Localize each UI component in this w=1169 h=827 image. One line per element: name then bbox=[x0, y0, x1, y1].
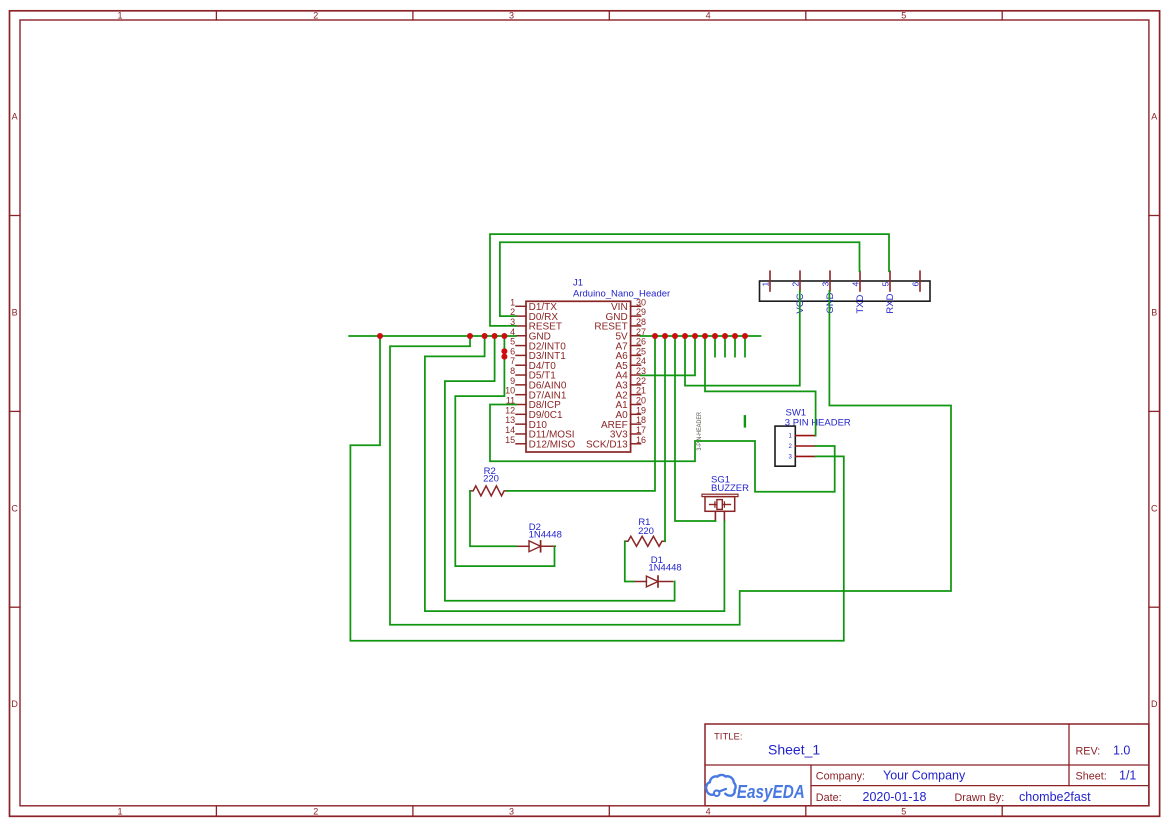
connector J1 Arduino_Nano_Header body bbox=[526, 301, 631, 452]
connector SW1 3 PIN HEADER body bbox=[775, 426, 795, 466]
svg-text:17: 17 bbox=[636, 425, 646, 435]
svg-text:3: 3 bbox=[509, 11, 514, 21]
diode D1 bbox=[634, 576, 673, 587]
svg-text:28: 28 bbox=[636, 317, 646, 327]
label SW1 refdes bbox=[786, 407, 807, 418]
wire stub below 5V c bbox=[734, 336, 736, 357]
svg-text:7: 7 bbox=[510, 356, 515, 366]
svg-text:4: 4 bbox=[706, 807, 711, 817]
label SW1 value 3 PIN HEADER bbox=[785, 417, 851, 428]
svg-text:1: 1 bbox=[510, 297, 515, 307]
wire GND to SW1 pin3 bbox=[350, 336, 843, 641]
svg-text:29: 29 bbox=[636, 307, 646, 317]
SW1 pin 1 bbox=[788, 434, 815, 440]
svg-text:BUZZER: BUZZER bbox=[711, 483, 749, 494]
J1 pin 29 GND bbox=[605, 307, 646, 323]
svg-text:Drawn By:: Drawn By: bbox=[955, 792, 1005, 804]
junction dot 5V bus 4 bbox=[682, 333, 688, 339]
junction dot GND bus 1 bbox=[377, 333, 383, 339]
svg-text:Sheet_1: Sheet_1 bbox=[768, 742, 820, 758]
svg-text:22: 22 bbox=[636, 376, 646, 386]
J1 pin 7 D4/T0 bbox=[510, 356, 556, 372]
wire 5V to header VCC bbox=[685, 291, 800, 386]
junction dot 5V bus 5 bbox=[692, 333, 698, 339]
svg-text:5: 5 bbox=[510, 337, 515, 347]
J1 pin 19 A0 bbox=[615, 405, 646, 421]
svg-text:5: 5 bbox=[901, 11, 906, 21]
label SG1 value BUZZER bbox=[711, 483, 749, 494]
svg-text:D: D bbox=[11, 699, 18, 709]
wire 5V to R1 bbox=[664, 336, 666, 541]
J1 pin 14 D11/MOSI bbox=[505, 425, 574, 441]
J1 pin 4 GND bbox=[510, 327, 551, 343]
J1 pin 17 3V3 bbox=[610, 425, 646, 441]
svg-text:5: 5 bbox=[901, 807, 906, 817]
label R2 refdes bbox=[484, 466, 496, 477]
svg-text:16: 16 bbox=[636, 435, 646, 445]
J1 pin 3 RESET bbox=[510, 317, 562, 333]
resistor R1 bbox=[625, 536, 665, 546]
J1 pin 8 D5/T1 bbox=[510, 366, 556, 382]
diode D2 bbox=[516, 541, 555, 552]
svg-text:Arduino_Nano_Header: Arduino_Nano_Header bbox=[573, 289, 670, 300]
svg-text:D12/MISO: D12/MISO bbox=[529, 439, 576, 450]
J1 pin 10 D7/AIN1 bbox=[505, 386, 567, 402]
svg-text:13: 13 bbox=[505, 415, 515, 425]
label D2 value 1N4448 bbox=[529, 530, 562, 541]
P1 pin 5 bbox=[880, 271, 896, 313]
junction dot pin5-6 column 1 bbox=[501, 348, 507, 354]
svg-text:24: 24 bbox=[636, 356, 646, 366]
wire GND to D1 cathode bbox=[445, 336, 675, 601]
wire stub below 5V d bbox=[744, 336, 746, 357]
buzzer SG1 body bbox=[702, 494, 738, 521]
wire GND to header GND bbox=[390, 291, 951, 625]
J1 pin 15 D12/MISO bbox=[505, 435, 575, 451]
junction dot GND bus 3 bbox=[482, 333, 488, 339]
svg-text:3-PIN-HEADER: 3-PIN-HEADER bbox=[696, 412, 703, 451]
wire GND to buzzer negative bbox=[425, 336, 725, 611]
J1 pin 26 A7 bbox=[615, 337, 646, 353]
junction dot pin5-6 column 2 bbox=[501, 354, 507, 360]
svg-text:1.0: 1.0 bbox=[1113, 744, 1130, 758]
svg-text:21: 21 bbox=[636, 386, 646, 396]
svg-text:6: 6 bbox=[510, 346, 515, 356]
svg-text:1: 1 bbox=[117, 807, 122, 817]
J1 pin 20 A1 bbox=[615, 396, 646, 412]
rotated name 3-PIN-HEADER bbox=[696, 412, 703, 451]
svg-text:10: 10 bbox=[505, 386, 515, 396]
J1 pin 16 SCK/D13 bbox=[586, 435, 646, 451]
svg-text:3 PIN HEADER: 3 PIN HEADER bbox=[785, 417, 851, 428]
SW1 pin 3 bbox=[788, 455, 815, 461]
svg-text:8: 8 bbox=[510, 366, 515, 376]
J1 pin 30 VIN bbox=[611, 297, 646, 313]
J1 pin 9 D6/AIN0 bbox=[510, 376, 567, 392]
svg-text:18: 18 bbox=[636, 415, 646, 425]
wire RESET to header RXD bbox=[490, 234, 889, 326]
wire fragment near SW1 bbox=[744, 416, 746, 426]
svg-text:15: 15 bbox=[505, 435, 515, 445]
svg-text:25: 25 bbox=[636, 346, 646, 356]
J1 pin 12 D9/0C1 bbox=[505, 405, 563, 421]
svg-text:Company:: Company: bbox=[816, 770, 865, 782]
wire GND bus bbox=[349, 335, 516, 337]
J1 pin 25 A6 bbox=[615, 346, 646, 362]
svg-text:GND: GND bbox=[825, 292, 836, 313]
svg-text:3: 3 bbox=[509, 807, 514, 817]
svg-text:TXD: TXD bbox=[855, 294, 866, 313]
svg-text:A: A bbox=[1151, 112, 1157, 122]
junction dot 5V bus 8 bbox=[722, 333, 728, 339]
svg-text:C: C bbox=[11, 503, 18, 513]
svg-text:1: 1 bbox=[760, 282, 770, 287]
wire 5V to buzzer positive bbox=[675, 336, 715, 521]
svg-text:SCK/D13: SCK/D13 bbox=[586, 439, 628, 450]
wire R1 to D1 anode bbox=[625, 541, 634, 581]
svg-text:1/1: 1/1 bbox=[1119, 769, 1136, 783]
J1 pin 18 AREF bbox=[601, 415, 646, 431]
wire 5V to SW1 pin1 bbox=[705, 336, 816, 436]
resistor R2 bbox=[470, 486, 507, 496]
label J1 value Arduino_Nano_Header bbox=[573, 289, 670, 300]
junction dot 5V bus 6 bbox=[702, 333, 708, 339]
EasyEDA logo bbox=[706, 775, 805, 802]
svg-text:2: 2 bbox=[313, 807, 318, 817]
svg-text:4: 4 bbox=[706, 11, 711, 21]
svg-text:TITLE:: TITLE: bbox=[714, 731, 743, 742]
J1 pin 27 5V bbox=[615, 327, 646, 343]
wire D8/ICP to SW1 pin2 bbox=[490, 405, 835, 492]
svg-text:19: 19 bbox=[636, 405, 646, 415]
svg-text:B: B bbox=[12, 308, 18, 318]
junction dot 5V bus 3 bbox=[672, 333, 678, 339]
title block bbox=[705, 724, 1149, 806]
svg-text:2020-01-18: 2020-01-18 bbox=[863, 790, 927, 804]
J1 pin 13 D10 bbox=[505, 415, 547, 431]
svg-text:REV:: REV: bbox=[1076, 745, 1101, 757]
P1 pin 2 bbox=[790, 271, 806, 313]
J1 pin 23 A4 bbox=[615, 366, 646, 382]
svg-text:3: 3 bbox=[820, 282, 830, 287]
J1 pin 1 D1/TX bbox=[510, 297, 557, 313]
svg-text:20: 20 bbox=[636, 396, 646, 406]
svg-text:C: C bbox=[1151, 503, 1158, 513]
svg-text:Date:: Date: bbox=[816, 792, 842, 804]
J1 pin 11 D8/ICP bbox=[506, 396, 561, 412]
svg-text:2: 2 bbox=[790, 282, 800, 287]
svg-text:J1: J1 bbox=[573, 277, 583, 288]
svg-text:6: 6 bbox=[910, 282, 920, 287]
label R2 value 220 bbox=[483, 473, 499, 484]
label D1 value 1N4448 bbox=[648, 563, 681, 574]
SW1 pin 2 bbox=[788, 444, 815, 450]
svg-text:chombe2fast: chombe2fast bbox=[1019, 790, 1091, 804]
label R1 value 220 bbox=[638, 526, 654, 537]
wire stub below 5V a bbox=[714, 336, 716, 357]
P1 pin 4 bbox=[850, 271, 866, 313]
connector P1 6-pin header body bbox=[760, 281, 931, 301]
svg-text:RXD: RXD bbox=[885, 293, 896, 313]
P1 pin 6 bbox=[910, 271, 920, 291]
J1 pin 24 A5 bbox=[615, 356, 646, 372]
label D1 refdes bbox=[651, 555, 663, 566]
label D2 refdes bbox=[529, 522, 541, 533]
J1 pin 21 A2 bbox=[615, 386, 646, 402]
junction dot GND bus 4 bbox=[492, 333, 498, 339]
svg-text:12: 12 bbox=[505, 405, 515, 415]
label R1 refdes bbox=[638, 517, 650, 528]
wire GND to D2 cathode bbox=[455, 336, 554, 566]
svg-text:220: 220 bbox=[638, 526, 654, 537]
label SG1 refdes bbox=[711, 475, 730, 486]
wire stub below 5V b bbox=[724, 336, 726, 357]
junction dot 5V bus 1 bbox=[652, 333, 658, 339]
svg-text:Sheet:: Sheet: bbox=[1076, 771, 1107, 783]
wire A4 to 5V bbox=[641, 336, 695, 375]
svg-text:Your Company: Your Company bbox=[883, 769, 966, 783]
svg-text:220: 220 bbox=[483, 473, 499, 484]
P1 pin 3 bbox=[820, 271, 836, 313]
wire 5V bus bbox=[641, 335, 761, 337]
svg-text:1: 1 bbox=[117, 11, 122, 21]
junction dot GND bus 2 bbox=[467, 333, 473, 339]
wire 5V to R2 bbox=[507, 336, 655, 491]
junction dot 5V bus 10 bbox=[742, 333, 748, 339]
svg-text:EasyEDA: EasyEDA bbox=[737, 782, 805, 802]
svg-text:1N4448: 1N4448 bbox=[648, 563, 681, 574]
svg-text:A: A bbox=[12, 112, 18, 122]
P1 pin 1 bbox=[760, 271, 770, 291]
svg-text:B: B bbox=[1151, 308, 1157, 318]
svg-text:1N4448: 1N4448 bbox=[529, 530, 562, 541]
junction dot 5V bus 7 bbox=[712, 333, 718, 339]
svg-text:5: 5 bbox=[880, 282, 890, 287]
svg-text:4: 4 bbox=[850, 282, 860, 287]
label J1 refdes bbox=[573, 277, 583, 288]
J1 pin 28 RESET bbox=[594, 317, 646, 333]
wire D0/RX to header TXD bbox=[500, 242, 860, 316]
junction dot 5V bus 9 bbox=[732, 333, 738, 339]
wire R2 to D2 anode bbox=[470, 491, 516, 546]
svg-text:26: 26 bbox=[636, 337, 646, 347]
junction dot GND bus 5 bbox=[501, 333, 507, 339]
J1 pin 22 A3 bbox=[615, 376, 646, 392]
svg-text:9: 9 bbox=[510, 376, 515, 386]
J1 pin 6 D3/INT1 bbox=[510, 346, 566, 362]
J1 pin 5 D2/INT0 bbox=[510, 337, 566, 353]
svg-text:14: 14 bbox=[505, 425, 515, 435]
junction dot 5V bus 2 bbox=[662, 333, 668, 339]
svg-text:2: 2 bbox=[313, 11, 318, 21]
svg-text:D: D bbox=[1151, 699, 1158, 709]
svg-text:30: 30 bbox=[636, 297, 646, 307]
J1 pin 2 D0/RX bbox=[510, 307, 558, 323]
